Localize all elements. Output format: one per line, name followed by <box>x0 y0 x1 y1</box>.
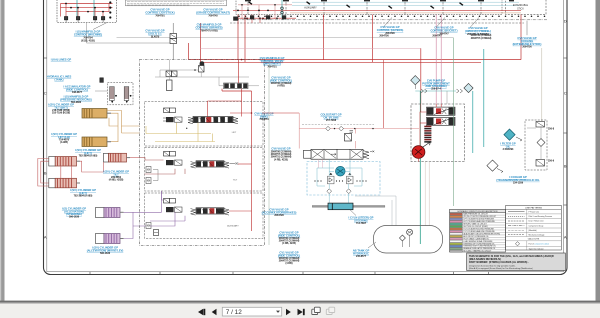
main control valve bank box <box>236 0 502 15</box>
svg-text:7064751: 7064751 <box>259 118 269 121</box>
wire purple steer connections <box>124 191 162 239</box>
svg-text:STICK: STICK <box>517 8 524 10</box>
frame zone ticks <box>44 58 568 275</box>
steer cylinder purple 2 <box>96 234 124 244</box>
svg-text:596-1636: 596-1636 <box>69 216 80 219</box>
inlet section: reducing valve pair <box>166 71 177 77</box>
svg-text:Designed on illustrated that i: Designed on illustrated that it's fully … <box>469 264 516 267</box>
pilot section ports <box>281 7 284 10</box>
pilot valve 3 <box>93 17 96 20</box>
svg-text:257-7908: 257-7908 <box>326 119 337 122</box>
tilt cylinder upper <box>82 109 111 119</box>
svg-text:(4 RB, 4235): (4 RB, 4235) <box>274 158 288 161</box>
aux compensator <box>166 207 182 212</box>
svg-text:SL4870: SL4870 <box>151 36 160 39</box>
previous page button <box>212 309 217 315</box>
steering check valve right <box>347 173 354 184</box>
dropdown caret <box>276 311 280 313</box>
svg-text:TILT: TILT <box>233 180 238 182</box>
notes strip <box>126 0 227 6</box>
svg-text:A: A <box>44 235 47 240</box>
svg-text:C: C <box>564 91 567 96</box>
svg-text:218-7196 (H228): 218-7196 (H228) <box>52 112 70 115</box>
port circles <box>109 1 111 18</box>
svg-text:I (UA) LINES GP: I (UA) LINES GP <box>51 58 72 62</box>
svg-text:(4 RB, 4235): (4 RB, 4235) <box>282 242 296 245</box>
bank solenoid 3 <box>282 15 286 19</box>
junction dots bank <box>244 17 278 19</box>
labels central right <box>254 56 300 265</box>
wire yellow lift pilots <box>146 123 215 142</box>
junction dots <box>65 3 104 13</box>
tilt pilot valve <box>164 152 176 157</box>
breather cap <box>407 229 413 235</box>
wire red tilt feed <box>238 163 252 165</box>
right gutter <box>596 0 600 301</box>
cooler bypass diamond <box>487 160 498 171</box>
component group dashed line <box>302 123 374 125</box>
junction dots accumulator <box>115 95 117 97</box>
wires steering internal <box>317 159 362 203</box>
aux main spool <box>191 208 230 215</box>
svg-text:EXTENDABLE: EXTENDABLE <box>513 4 529 7</box>
auxiliary section box <box>145 193 264 239</box>
wire green return <box>453 38 455 206</box>
steering diamond right <box>346 189 351 194</box>
svg-text:256-8: 256-8 <box>548 128 555 131</box>
svg-text:256-87-4: 256-87-4 <box>431 88 441 91</box>
pump group box <box>411 104 465 162</box>
lift section box <box>145 102 264 147</box>
wire purple aux lines <box>150 191 185 226</box>
svg-text:B: B <box>44 171 47 176</box>
svg-text:7064751: 7064751 <box>267 65 277 68</box>
svg-text:Mechanical Linkage: Mechanical Linkage <box>529 234 545 236</box>
svg-text:(Manifold): (Manifold) <box>529 230 537 232</box>
svg-text:HYDRAULIC CIRCUIT COLOR DESCRI: HYDRAULIC CIRCUIT COLOR DESCRIPTION <box>458 210 498 213</box>
solenoid valve SL4870 <box>170 23 177 60</box>
coldstart valve <box>345 131 354 141</box>
frame zone letters right <box>564 19 567 240</box>
tilt section box <box>145 148 264 192</box>
wire tan bank line <box>290 12 521 14</box>
junction dots coldstart <box>334 128 335 129</box>
callout diamond sample <box>515 242 519 246</box>
svg-text:(6135, 4185): (6135, 4185) <box>81 40 95 43</box>
lift main spool <box>188 117 238 124</box>
wire teal pump lines <box>415 90 456 92</box>
main piston pump circle <box>412 146 425 159</box>
first page button <box>198 309 205 315</box>
check valve on bank feed <box>233 17 238 21</box>
color swatches <box>450 213 462 252</box>
drain line right of box <box>268 60 270 245</box>
ride control solenoid <box>100 78 104 83</box>
tilt pilot pair left <box>146 167 158 184</box>
inlet manifold valve <box>224 83 249 89</box>
line pattern text <box>529 211 553 236</box>
wire red supply main <box>189 15 522 105</box>
pilot section grid <box>238 5 292 19</box>
svg-text:2064751 (2.5WAVE): 2064751 (2.5WAVE) <box>467 33 489 36</box>
schematic notes box <box>467 253 566 271</box>
lift pilot valve <box>164 108 176 113</box>
valve stack comb <box>424 126 431 143</box>
steering cylinder barrel <box>328 203 353 210</box>
SCHEMATIC PAGE <box>44 0 568 275</box>
svg-text:782-3894 (A 985): 782-3894 (A 985) <box>79 154 98 157</box>
svg-text:(A 985): (A 985) <box>60 141 68 144</box>
steering priority valve spool <box>304 149 375 159</box>
outer group boundary line <box>236 19 547 21</box>
tilt compensator <box>166 160 182 165</box>
wire red lift cylinder loop <box>38 158 140 186</box>
label tank <box>368 242 376 248</box>
cooler group box <box>525 120 547 170</box>
svg-text:(4 RB): (4 RB) <box>285 262 292 265</box>
steering diamond left <box>327 189 332 194</box>
wire teal return right <box>473 49 484 153</box>
svg-text:B: B <box>564 164 567 169</box>
svg-text:PART NUMBER: (STWRA) CHASSIS (: PART NUMBER: (STWRA) CHASSIS (AL WORKS) … <box>469 261 529 264</box>
svg-text:2064790: 2064790 <box>385 32 395 35</box>
wire pink pump feed <box>201 47 421 49</box>
wire cyan bank lines <box>292 2 519 5</box>
accumulator valve 2 <box>124 87 129 104</box>
line samples <box>508 212 525 235</box>
svg-text:596-1636: 596-1636 <box>100 252 111 255</box>
implement control valve group box <box>140 60 265 246</box>
svg-text:2064757 (2.5WHH): 2064757 (2.5WHH) <box>471 37 492 40</box>
toolbar background <box>0 304 600 318</box>
svg-text:Drain / Return Line: Drain / Return Line <box>529 220 544 223</box>
svg-text:(Mor-A-S) in equipped (Screw S: (Mor-A-S) in equipped (Screw Sheet) for … <box>469 267 533 270</box>
drawing frame inner border <box>47 0 564 272</box>
svg-text:AUXILIARY: AUXILIARY <box>304 6 317 9</box>
svg-text:(4 RB): (4 RB) <box>277 85 284 88</box>
bank left red manifold <box>238 15 296 24</box>
pilot valve 2 <box>76 17 79 20</box>
color legend table <box>450 210 506 253</box>
wire pink steering pilots <box>319 159 323 168</box>
tilt cylinder small <box>104 153 131 162</box>
pump outlet diamond <box>464 83 473 92</box>
dashed pilot return line <box>230 22 524 24</box>
wire red bank supply <box>233 9 521 11</box>
aux pilot valve <box>164 199 176 204</box>
lift cylinder 2 <box>49 178 80 188</box>
wire gray inlet <box>155 60 259 86</box>
tilt cylinder lower <box>82 137 111 147</box>
wire teal pilot drain <box>77 0 94 17</box>
section top valve bodies <box>245 0 514 1</box>
wire red lift loop <box>208 101 252 117</box>
wire red coldstart feed <box>383 60 385 128</box>
cooler top element <box>536 122 545 128</box>
svg-text:2 KH0293: 2 KH0293 <box>503 148 514 151</box>
labels left edge <box>47 58 72 82</box>
wire red inlet feed <box>222 60 252 231</box>
tilt main spool <box>191 161 239 168</box>
drawing frame outer border <box>44 0 568 275</box>
svg-text:CALLOUTS: CALLOUTS <box>528 238 540 241</box>
wire gray pump drain <box>446 91 448 104</box>
cooler bottom element <box>536 160 545 167</box>
wire maroon tilt lines <box>140 158 186 174</box>
inlet vertical component <box>167 80 173 91</box>
coldstart line <box>299 113 419 149</box>
wire gray to accumulator <box>95 90 108 92</box>
toolbar separator <box>0 301 600 303</box>
wire red aux feed <box>229 210 252 212</box>
svg-text:245-8577: 245-8577 <box>356 255 367 258</box>
tank diamond <box>399 235 405 241</box>
wire green-teal main return <box>419 91 421 226</box>
copy page icon <box>312 307 320 314</box>
aux pilot pair left <box>146 223 159 236</box>
svg-text:782-3894 (A 985): 782-3894 (A 985) <box>74 194 93 197</box>
svg-text:2064756: 2064756 <box>522 46 532 49</box>
cooler diamond <box>537 139 545 147</box>
wire red pump internal <box>419 104 442 162</box>
svg-text:P Power Line: P Power Line <box>529 211 540 213</box>
test diamond 2 <box>339 126 344 131</box>
svg-text:2064747: 2064747 <box>439 33 449 36</box>
leader line pilot label <box>93 23 107 30</box>
wire red pilot grid <box>61 4 113 17</box>
port dot row <box>238 15 545 17</box>
accumulator valve 1 <box>110 87 115 104</box>
port symbol right <box>457 89 463 93</box>
steering metering pump circle <box>336 166 346 176</box>
hydraulic reservoir <box>374 226 443 254</box>
section arrows <box>248 1 463 9</box>
steering cylinder rod <box>312 206 385 208</box>
svg-text:LIFT: LIFT <box>232 132 237 134</box>
lift cylinder 1 <box>49 157 80 167</box>
section dividers <box>248 0 481 15</box>
frame zone letters left <box>44 91 47 240</box>
wires cooler <box>527 127 541 160</box>
left gutter <box>0 0 5 301</box>
svg-text:Component Group: Component Group <box>529 224 544 227</box>
color legend text rows <box>463 213 500 253</box>
pilot control manifold box <box>57 0 117 23</box>
bank solenoid 1 <box>250 15 254 19</box>
svg-text:A: A <box>564 235 567 240</box>
svg-text:234-1289: 234-1289 <box>513 182 524 185</box>
pilot section teal drain <box>281 0 283 18</box>
svg-text:(TANK): (TANK) <box>54 77 63 81</box>
lift compensator <box>163 117 182 122</box>
page number input <box>222 307 281 316</box>
svg-text:7064747 (4 RB): 7064747 (4 RB) <box>200 30 217 33</box>
extendable stick section box <box>506 0 547 15</box>
pilot valve 1 <box>64 17 67 20</box>
port symbol left <box>421 89 427 93</box>
wire pink pilot pair <box>436 15 441 105</box>
steering unit box <box>307 162 380 196</box>
test diamond 1 <box>326 126 331 131</box>
accumulator manifold box <box>108 83 134 105</box>
svg-text:AUXILIARY: AUXILIARY <box>227 225 239 228</box>
wire gray pilot feed <box>87 23 170 44</box>
next page button <box>286 309 291 315</box>
svg-text:2064728: 2064728 <box>274 214 284 217</box>
piston pump 2 <box>427 117 456 125</box>
svg-text:(4 985, H228): (4 985, H228) <box>109 179 124 182</box>
svg-text:256-9: 256-9 <box>548 160 555 163</box>
svg-text:Taper line indicator: Taper line indicator <box>529 247 544 250</box>
pilot grid dots <box>236 4 276 20</box>
last page button <box>298 309 305 315</box>
svg-text:D: D <box>564 19 567 24</box>
svg-text:Pilot / Load Sensing Pressure: Pilot / Load Sensing Pressure <box>529 215 553 218</box>
svg-text:BLOCKED / TRAPPED OIL CIRCUIT: BLOCKED / TRAPPED OIL CIRCUIT <box>463 250 491 253</box>
wire tan tilt connections <box>107 111 140 142</box>
pilot valve 4 <box>101 17 104 20</box>
svg-text:LINE PATTERNS: LINE PATTERNS <box>525 206 542 209</box>
svg-text:C: C <box>44 91 47 96</box>
wire case drain lines to tank <box>425 162 429 245</box>
svg-text:Part of component callout: Part of component callout <box>529 243 550 246</box>
inlet section: relief valve <box>199 61 205 72</box>
wire gray long horizontal <box>117 37 454 39</box>
oil filter diamond <box>504 129 515 140</box>
junction dots inlet <box>241 59 243 61</box>
svg-text:7064745: 7064745 <box>208 15 218 18</box>
line patterns table <box>506 205 562 250</box>
steer cylinder purple 1 <box>96 208 124 218</box>
svg-text:7064791: 7064791 <box>155 15 165 18</box>
junction dot lift <box>186 128 187 129</box>
wire bypass to cooler <box>541 48 543 121</box>
copy page icon disabled <box>326 307 334 314</box>
svg-text:7 / 12: 7 / 12 <box>226 309 242 316</box>
suction pipe into tank <box>419 226 421 244</box>
bank solenoid 2 <box>266 15 270 19</box>
piston pump 1 <box>427 107 456 115</box>
pump suction diamond <box>411 76 420 85</box>
wire red to priority valve <box>262 112 299 114</box>
svg-text:348-3877: 348-3877 <box>72 91 83 94</box>
leader lines bank labels <box>383 18 527 36</box>
dotted mechanical link row <box>314 180 366 181</box>
steering check valve left <box>328 173 335 184</box>
svg-text:714-7897: 714-7897 <box>356 222 367 225</box>
